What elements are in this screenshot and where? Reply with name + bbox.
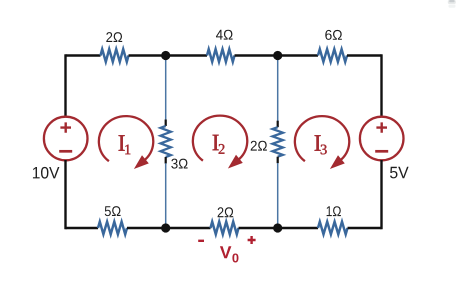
resistor R3 6Ω (top right) — [318, 49, 347, 62]
wire: node B down to R8 (blue branch, upper) — [277, 56, 279, 122]
pin: R7 bottom lead — [165, 157, 167, 164]
label 5Ω for R4 — [105, 206, 121, 216]
wire: right vertical upper — [380, 54, 382, 117]
wire: top between R1 and node A — [129, 54, 208, 56]
label 10V for V1 — [33, 167, 59, 179]
resistor R5 2Ω (bottom middle) — [211, 222, 239, 235]
label plus sign of V0 — [248, 236, 256, 244]
node B (junction dot, top right) — [273, 51, 282, 60]
wire: node A down to R7 (blue branch, upper) — [165, 56, 167, 120]
wire: top-left segment — [66, 54, 101, 56]
label 4Ω for R2 — [216, 30, 233, 40]
wire: top between R2 and node B — [235, 54, 319, 56]
resistor R6 1Ω (bottom right) — [318, 222, 348, 235]
label I1 mesh current — [119, 135, 131, 154]
node D (junction dot, bottom right) — [273, 223, 282, 232]
label 2Ω for R8 — [251, 141, 267, 151]
resistor R7 3Ω (left middle, vertical) — [161, 126, 171, 157]
wire: left vertical upper — [64, 54, 66, 117]
label V0 (output voltage across R5) — [220, 246, 239, 262]
label 2Ω for R5 — [218, 207, 234, 217]
decorative faint smudge top-right (cropped UI artifact) — [448, 0, 456, 8]
pin: R7 top lead — [165, 120, 167, 127]
label 1Ω for R6 — [327, 206, 341, 216]
wire: bottom between R4 and node C — [127, 227, 211, 229]
node A (junction dot, top left) — [161, 51, 170, 60]
wire: bottom-right segment — [348, 227, 382, 229]
label I3 mesh current — [315, 135, 327, 154]
wire: bottom-left segment — [66, 227, 99, 229]
wire: right vertical lower — [380, 160, 382, 229]
label I2 mesh current — [213, 135, 225, 154]
voltage source V1 10V (circle with polarity) — [44, 117, 88, 161]
wire: left vertical lower — [64, 160, 66, 229]
pin: R8 bottom lead — [277, 157, 279, 164]
mesh current loop I2 (clockwise arc with arrowhead) — [193, 116, 247, 169]
resistor R2 4Ω (top middle) — [207, 49, 235, 62]
wire: R8 down to node D (blue branch, lower) — [277, 163, 279, 228]
label 5V for V2 — [390, 167, 409, 179]
resistor R1 2Ω (top left) — [101, 49, 129, 62]
voltage source V2 5V (circle with polarity) — [360, 117, 404, 161]
wire: R7 down to node C (blue branch, lower) — [165, 163, 167, 228]
node C (junction dot, bottom left) — [161, 223, 170, 232]
mesh current loop I1 (clockwise arc with arrowhead) — [99, 116, 153, 169]
mesh current loop I3 (clockwise arc with arrowhead) — [295, 116, 349, 169]
label 2Ω for R1 — [106, 32, 122, 42]
wire: top-right segment — [347, 54, 382, 56]
resistor R8 2Ω (right middle, vertical) — [273, 127, 283, 157]
label 6Ω for R3 — [325, 30, 342, 40]
resistor R4 5Ω (bottom left) — [98, 222, 127, 235]
wire: bottom between R5 and node D — [239, 227, 319, 229]
label minus sign of V0 — [198, 240, 204, 242]
label 3Ω for R7 — [171, 159, 187, 169]
pin: R8 top lead — [277, 121, 279, 128]
